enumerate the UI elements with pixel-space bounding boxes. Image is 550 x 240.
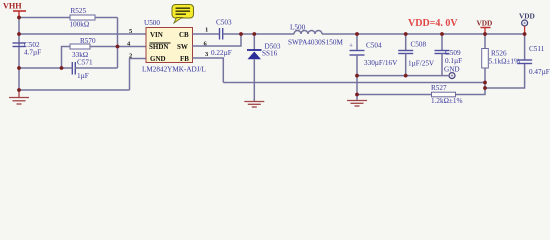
- capacitor C511: [517, 34, 550, 76]
- junction SW node / D503 cathode: [252, 32, 256, 36]
- svg-text:VDD=4. 0V: VDD=4. 0V: [408, 18, 458, 29]
- wire C571 row y=68: [19, 67, 72, 69]
- wire drop x=117.5 to SHDN/C571: [117, 18, 119, 69]
- inductor L500: [288, 24, 343, 47]
- svg-text:R525: R525: [71, 7, 87, 15]
- svg-text:R570: R570: [80, 37, 96, 45]
- junction VDD rail / R526 top: [483, 32, 487, 36]
- junction FB node / R526 bottom: [483, 81, 487, 85]
- junction gnd rail / C508 bottom: [404, 74, 408, 78]
- wire left ground rail y=90: [19, 89, 130, 91]
- svg-text:C571: C571: [77, 59, 93, 67]
- capacitor C504 (electrolytic): [349, 34, 398, 95]
- svg-text:R527: R527: [431, 84, 447, 92]
- svg-text:5.1kΩ±1%: 5.1kΩ±1%: [489, 58, 520, 66]
- wire R527 right to riser x=485: [456, 68, 486, 95]
- note icon (yellow speech bubble): [172, 5, 194, 24]
- wire R527 row y=94.5: [357, 94, 432, 96]
- svg-text:VIN: VIN: [150, 31, 163, 39]
- junction C502 bottom / C571 row: [17, 66, 21, 70]
- junction SHDN node: [116, 45, 120, 49]
- resistor R527: [431, 84, 462, 105]
- svg-text:VDD: VDD: [519, 12, 535, 21]
- svg-text:VHH: VHH: [3, 2, 22, 11]
- wire SW pin6 riser: [193, 34, 242, 46]
- svg-text:0.1µF: 0.1µF: [445, 57, 462, 65]
- wire FB pin3 drop to feedback rail: [193, 58, 224, 83]
- wire C503 to SW node rail: [223, 33, 241, 35]
- svg-text:1µF: 1µF: [77, 72, 89, 80]
- IC U500 (LM2842YMK-ADJ buck regulator): [142, 19, 206, 74]
- wire SHDN row y=46.5 right of R570: [90, 46, 146, 48]
- ground symbol under D503: [244, 102, 264, 108]
- wire VHH vertical bus x=19: [18, 16, 20, 90]
- wire C511 bottom rail y=88: [485, 64, 525, 89]
- wire C571 right to drop corner: [75, 67, 117, 69]
- svg-text:R526: R526: [491, 50, 507, 58]
- wire GND pin row y=58.5 with riser x=129.5: [130, 59, 147, 91]
- capacitor C503: [211, 19, 232, 58]
- ground symbol under C504: [347, 95, 367, 107]
- wire R525 row y=17.5: [19, 17, 70, 19]
- wire SW/VDD rail y=34: [241, 33, 294, 35]
- svg-text:SS16: SS16: [262, 50, 278, 58]
- wire VIN row y=34: [19, 33, 146, 35]
- wire VDD rail y=34 after L500: [322, 33, 525, 35]
- svg-text:U500: U500: [144, 19, 160, 27]
- svg-text:SW: SW: [177, 43, 188, 51]
- svg-text:GND: GND: [150, 55, 166, 63]
- svg-text:C509: C509: [445, 49, 461, 57]
- resistor R570: [70, 37, 96, 59]
- svg-text:1.2kΩ±1%: 1.2kΩ±1%: [431, 97, 462, 105]
- junction VHH / VIN row: [17, 32, 21, 36]
- junction VDD rail / C508 top: [404, 32, 408, 36]
- resistor R525: [70, 7, 96, 29]
- svg-text:1µF/25V: 1µF/25V: [408, 60, 435, 68]
- svg-text:0.22µF: 0.22µF: [211, 49, 232, 57]
- capacitor C509: [435, 34, 463, 76]
- junction VDD rail / C511 top: [523, 32, 527, 36]
- wire local ground rail y=75.6: [357, 75, 448, 77]
- svg-text:FB: FB: [180, 55, 189, 63]
- wire R525 to drop: [95, 17, 118, 19]
- svg-text:C503: C503: [216, 19, 232, 27]
- junction VDD rail / C504 top: [355, 32, 359, 36]
- wire CB pin1 row y=34: [193, 33, 220, 35]
- junction FB node / C511 bottom: [483, 86, 487, 90]
- svg-text:C508: C508: [411, 41, 427, 49]
- capacitor C508: [398, 34, 435, 76]
- power port VDD (circle style) at x=524.6: [519, 12, 535, 35]
- svg-text:CB: CB: [179, 31, 189, 39]
- junction VDD rail / C509 top: [440, 32, 444, 36]
- svg-text:330µF/16V: 330µF/16V: [364, 59, 398, 67]
- svg-text:2: 2: [129, 53, 132, 60]
- junction C504 bottom / R527 row: [355, 93, 359, 97]
- diode D503: [247, 34, 281, 101]
- svg-text:+: +: [349, 42, 353, 50]
- ground port GND circle: [444, 66, 460, 79]
- svg-text:LM2842YMK-ADJ/L: LM2842YMK-ADJ/L: [142, 66, 206, 74]
- junction SW node / pin6 riser: [239, 32, 243, 36]
- svg-text:4.7µF: 4.7µF: [24, 49, 41, 57]
- capacitor C571: [72, 59, 93, 81]
- svg-text:SHDN: SHDN: [149, 43, 168, 51]
- svg-text:C511: C511: [529, 45, 545, 53]
- svg-text:100kΩ: 100kΩ: [70, 21, 90, 29]
- wire SHDN row y=46.5 left of R570: [62, 47, 71, 69]
- junction VHH / R525 row: [17, 16, 21, 20]
- wire FB feedback rail y=82.5: [223, 82, 485, 84]
- capacitor C502: [13, 41, 42, 57]
- resistor R526: [482, 34, 520, 68]
- ground symbol left: [9, 90, 29, 104]
- svg-text:0.47µF: 0.47µF: [529, 68, 550, 76]
- junction ground rail corner: [17, 88, 21, 92]
- power net VHH label: [3, 2, 26, 17]
- junction R570 left / C571 left: [60, 66, 64, 70]
- svg-text:1: 1: [205, 27, 208, 34]
- svg-text:VDD: VDD: [477, 19, 493, 28]
- svg-text:SWPA4030S150M: SWPA4030S150M: [288, 39, 343, 47]
- junction gnd rail / C504 bottom: [355, 74, 359, 78]
- svg-text:C504: C504: [366, 42, 382, 50]
- power port VDD (bar style) at x=485: [477, 19, 493, 35]
